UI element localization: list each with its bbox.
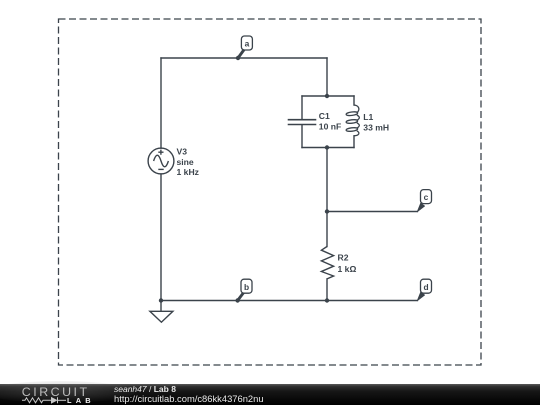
wire inductor branch upper (353, 96, 355, 105)
resistor R2 (321, 247, 333, 279)
svg-text:d: d (423, 282, 428, 292)
wire inductor branch lower (353, 136, 355, 148)
svg-text:http://circuitlab.com/c86kk437: http://circuitlab.com/c86kk4376n2nu (114, 393, 264, 404)
svg-text:1 kΩ: 1 kΩ (338, 264, 357, 274)
wire LC bottom down to node c junction (326, 148, 328, 247)
svg-text:L1: L1 (363, 112, 373, 122)
svg-text:c: c (424, 192, 429, 202)
svg-text:V3: V3 (177, 146, 188, 156)
junction node c (325, 209, 329, 213)
svg-text:LAB: LAB (67, 396, 95, 405)
junction node b dot (235, 298, 239, 302)
junction LC top (325, 94, 329, 98)
node flag b (238, 279, 252, 300)
svg-text:R2: R2 (338, 253, 349, 263)
footer logo zigzag and diode (22, 397, 66, 403)
svg-text:C1: C1 (319, 111, 330, 121)
svg-text:a: a (245, 39, 250, 49)
wire LC bottom rail (302, 147, 354, 149)
svg-text:33 mH: 33 mH (363, 123, 389, 133)
wire left: bottom of V3 (160, 174, 162, 301)
node flag d (417, 279, 431, 301)
node flag c (417, 190, 431, 212)
wire cap branch lower (301, 125, 303, 148)
wire right column: a rail down to LC top (326, 58, 328, 96)
svg-text:10 nF: 10 nF (319, 122, 341, 132)
voltage source V3 (148, 148, 174, 174)
schematic sheet dashed border (59, 19, 482, 365)
ground (150, 301, 173, 323)
junction resistor bottom (325, 298, 329, 302)
junction ground (159, 298, 163, 302)
inductor L1 (346, 105, 359, 136)
footer bar (0, 384, 540, 405)
junction LC bottom (325, 145, 329, 149)
wire bottom: node b rail (161, 300, 417, 302)
junction node a dot (236, 56, 240, 60)
wire left: top of V3 (160, 58, 162, 148)
node flag a (238, 36, 252, 58)
svg-text:1 kHz: 1 kHz (177, 167, 199, 177)
wire node c horizontal (327, 211, 417, 213)
svg-text:b: b (244, 282, 249, 292)
wire top: node a rail from V3 to LC column (161, 57, 327, 59)
wire LC top rail (302, 95, 354, 97)
wire cap branch upper (301, 96, 303, 119)
wire resistor bottom to b rail (326, 279, 328, 301)
capacitor C1 (288, 120, 317, 125)
svg-text:sine: sine (177, 157, 194, 167)
